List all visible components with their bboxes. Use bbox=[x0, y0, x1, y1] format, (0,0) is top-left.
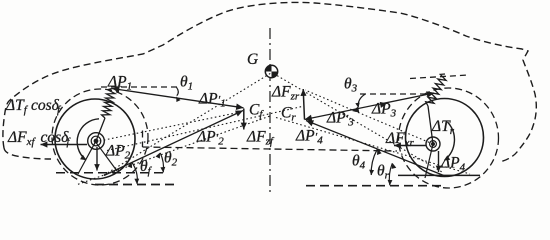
svg-text:θr: θr bbox=[377, 163, 390, 182]
svg-text:θ2: θ2 bbox=[164, 150, 178, 169]
svg-text:ΔP4: ΔP4 bbox=[440, 155, 466, 174]
svg-text:cosδ: cosδ bbox=[31, 97, 60, 114]
svg-text:ΔP1: ΔP1 bbox=[107, 74, 132, 93]
svg-text:Cf: Cf bbox=[249, 102, 264, 121]
svg-text:G: G bbox=[247, 51, 258, 68]
svg-text:θ1: θ1 bbox=[180, 74, 193, 93]
svg-text:ΔP′2: ΔP′2 bbox=[196, 129, 224, 148]
svg-text:ΔP2: ΔP2 bbox=[105, 143, 131, 162]
svg-text:cosδ: cosδ bbox=[41, 129, 70, 146]
svg-text:Cr: Cr bbox=[281, 105, 296, 124]
svg-text:ΔFxf: ΔFxf bbox=[7, 129, 36, 148]
svg-text:f: f bbox=[57, 105, 62, 116]
svg-text:ΔP′4: ΔP′4 bbox=[295, 128, 323, 147]
svg-text:θf: θf bbox=[140, 158, 153, 177]
svg-text:ΔTr: ΔTr bbox=[431, 118, 455, 137]
svg-text:ΔP3: ΔP3 bbox=[371, 101, 397, 120]
svg-text:f: f bbox=[67, 137, 72, 148]
svg-text:θ4: θ4 bbox=[352, 153, 366, 172]
svg-text:ΔP′3: ΔP′3 bbox=[326, 110, 354, 129]
svg-text:θ3: θ3 bbox=[344, 76, 358, 95]
svg-text:ΔFxr: ΔFxr bbox=[385, 130, 414, 149]
svg-text:ΔTf: ΔTf bbox=[5, 97, 29, 116]
svg-text:ΔP′1: ΔP′1 bbox=[198, 91, 226, 110]
svg-text:ΔFzf: ΔFzf bbox=[246, 129, 275, 148]
